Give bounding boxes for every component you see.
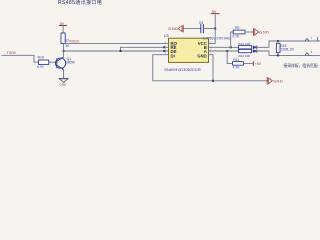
svg-text:TXD0: TXD0 <box>7 51 16 55</box>
svg-text:R10: R10 <box>38 55 44 59</box>
wire DI loop to ground rail <box>153 55 268 81</box>
ground under Q1 <box>59 78 68 82</box>
node 5V junction <box>214 28 216 30</box>
wire R11 riser from A <box>227 51 232 63</box>
wire GND pin riser <box>209 55 214 81</box>
no-ERC marker on B wire <box>305 38 309 41</box>
wire VCC riser <box>209 29 216 44</box>
wire RO net <box>63 43 168 45</box>
diode D5 on A <box>253 50 257 53</box>
svg-text:RXD0: RXD0 <box>69 39 79 43</box>
svg-text:GND: GND <box>60 83 68 87</box>
svg-text:1K: 1K <box>65 44 70 48</box>
wire R5 to GND <box>245 31 254 33</box>
resistor R10 <box>39 60 49 64</box>
capacitor C8 <box>201 25 204 33</box>
node GND rail junction <box>212 80 214 82</box>
svg-text:+5V: +5V <box>255 62 262 66</box>
node DE pin junction <box>163 50 165 52</box>
ground arrow right <box>266 78 268 85</box>
svg-text:U3: U3 <box>164 34 169 38</box>
no-ERC marker on A wire <box>305 53 309 56</box>
wire 5V to R7 <box>62 26 64 34</box>
svg-text:GND: GND <box>273 78 283 83</box>
resistor R7 <box>61 33 65 44</box>
svg-text:R13: R13 <box>239 42 245 46</box>
svg-text:C8: C8 <box>199 21 203 25</box>
svg-text:10R: 10R <box>245 42 251 46</box>
resistor R13 <box>239 46 252 49</box>
node A pull junction <box>226 50 228 52</box>
svg-text:4.7K: 4.7K <box>232 35 240 39</box>
resistor R14 <box>239 49 252 52</box>
wire Q1 collector vertical <box>63 44 65 51</box>
svg-text:R14: R14 <box>239 54 245 58</box>
node R15 bottom <box>277 54 279 56</box>
node B pull junction <box>230 46 232 48</box>
resistor R15 termination <box>277 41 279 43</box>
IC U3 RS485 transceiver <box>169 38 209 62</box>
svg-text:GND: GND <box>197 54 207 59</box>
wire C8 left <box>183 28 201 30</box>
wire RE riser <box>121 47 169 51</box>
svg-text:S8050: S8050 <box>65 60 75 64</box>
svg-text:4.7K: 4.7K <box>37 65 45 69</box>
svg-text:4.7K: 4.7K <box>233 66 241 70</box>
svg-text:R5: R5 <box>235 26 239 30</box>
wire R10 to Q1 base <box>49 61 57 63</box>
svg-text:接采样板，阻抗匹配: 接采样板，阻抗匹配 <box>284 63 318 68</box>
resistor R5 <box>233 30 245 34</box>
svg-text:DI: DI <box>171 54 175 59</box>
wire R5 riser from B <box>231 32 234 47</box>
svg-text:RS485通讯接口电: RS485通讯接口电 <box>58 0 102 6</box>
svg-text:R11: R11 <box>233 58 239 62</box>
wire R11 to +5V <box>243 62 253 64</box>
wire end mark <box>317 37 319 41</box>
wire B line <box>209 46 239 48</box>
node RE/DE riser junction <box>120 50 122 52</box>
svg-text:GND: GND <box>168 26 178 31</box>
wire Q1 emitter down <box>63 70 65 79</box>
pin numbers <box>165 41 213 55</box>
diode D4 on B <box>253 46 257 49</box>
svg-text:GND: GND <box>259 30 269 35</box>
wire C8 right to 5V node <box>203 28 215 30</box>
transistor Q1 <box>56 57 66 70</box>
svg-text:10R: 10R <box>245 54 251 58</box>
wire A to terminal <box>257 51 320 55</box>
node collector junction <box>63 50 65 52</box>
wire A line <box>209 50 239 52</box>
node R15 top <box>277 40 279 42</box>
RE overline <box>171 45 176 47</box>
wire B to terminal <box>257 41 320 47</box>
svg-text:SN65HVD3082EDR: SN65HVD3082EDR <box>164 67 201 72</box>
svg-text:120R,1%: 120R,1% <box>280 47 294 51</box>
ground port at R5 <box>253 29 255 36</box>
node RE pin junction <box>163 46 165 48</box>
svg-text:1nF/50V-X7R-0402: 1nF/50V-X7R-0402 <box>203 37 231 41</box>
resistor R11 <box>233 62 244 66</box>
wire DE net <box>64 50 169 52</box>
wire TXD0 horizontal <box>2 55 39 62</box>
